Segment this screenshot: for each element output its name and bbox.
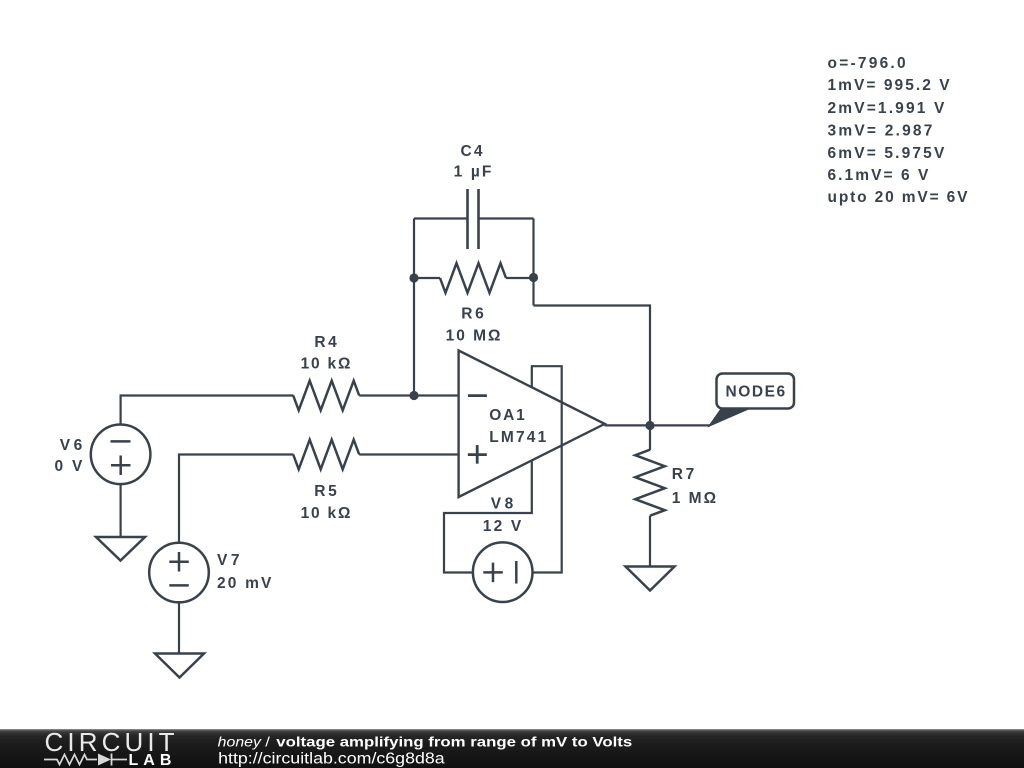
wire: feedback top horizontal right of C4 xyxy=(479,217,534,219)
svg-text:10 MΩ: 10 MΩ xyxy=(446,327,501,344)
wire: left vertical x=414 from cap down to R4 node xyxy=(413,219,415,396)
svg-text:LAB: LAB xyxy=(129,752,177,768)
svg-text:OA1: OA1 xyxy=(489,407,525,424)
V8 plus sign xyxy=(483,563,503,583)
svg-text:NODE6: NODE6 xyxy=(726,384,786,401)
node: R6 right junction xyxy=(529,273,538,282)
node: inverting input junction xyxy=(409,391,418,400)
svg-text:1 MΩ: 1 MΩ xyxy=(672,490,716,507)
NODE6 flag box xyxy=(717,374,795,409)
svg-text:1 µF: 1 µF xyxy=(454,164,492,181)
resistor R6 zigzag xyxy=(440,263,506,293)
wire: output node down to R7 xyxy=(649,426,651,451)
ground (R7) xyxy=(626,567,675,591)
wire: V6 bottom to ground xyxy=(119,484,121,537)
svg-text:http://circuitlab.com/c6g8d8a: http://circuitlab.com/c6g8d8a xyxy=(218,751,445,768)
source V6 circle xyxy=(91,425,151,485)
source V8 circle xyxy=(473,542,533,602)
wire: R5 to op-amp plus input xyxy=(359,453,458,455)
logo diode xyxy=(98,754,111,766)
svg-text:voltage amplifying from range: voltage amplifying from range of mV to V… xyxy=(276,733,632,749)
source V7 circle xyxy=(149,543,209,603)
node: output junction xyxy=(645,421,654,430)
V7 plus sign xyxy=(169,552,189,572)
svg-text:/: / xyxy=(265,733,270,749)
svg-text:10 kΩ: 10 kΩ xyxy=(301,355,351,372)
svg-text:C4: C4 xyxy=(461,143,483,160)
resistor R7 zigzag xyxy=(635,450,665,516)
wire: right vertical x=533 from cap down to R6 right node xyxy=(532,219,534,306)
svg-text:3mV= 2.987: 3mV= 2.987 xyxy=(828,122,933,139)
op-amp minus input symbol xyxy=(468,394,487,397)
svg-text:0 V: 0 V xyxy=(55,458,83,475)
resistor R5 zigzag xyxy=(293,440,359,470)
ground (V7) xyxy=(155,654,204,678)
resistor R6 left lead xyxy=(414,277,440,279)
wire: op-amp output to NODE6 xyxy=(605,424,711,426)
svg-text:6mV= 5.975V: 6mV= 5.975V xyxy=(828,145,945,162)
footer bar xyxy=(0,729,1024,768)
op-amp V- pin and wire to V8 left terminal xyxy=(444,461,532,572)
wire: R7 to ground xyxy=(649,516,651,567)
op-amp OA1 triangle xyxy=(459,351,605,498)
NODE6 flag pointer xyxy=(710,409,750,426)
wire: V7 bottom to ground xyxy=(178,602,180,653)
wire: feedback top horizontal left of C4 xyxy=(414,217,468,219)
V8 minus sign (rotated bar) xyxy=(515,561,518,584)
wire: V6 top to R4 xyxy=(121,396,294,425)
svg-text:R7: R7 xyxy=(672,466,694,483)
resistor R6 right lead xyxy=(506,277,534,279)
svg-text:honey: honey xyxy=(218,733,262,749)
wire: R6/C4 node to op-amp output column xyxy=(534,306,651,426)
ground (V6) xyxy=(96,537,145,561)
V7 minus sign xyxy=(169,584,189,587)
op-amp plus input symbol xyxy=(468,445,487,464)
wire: V7 top to R5 xyxy=(179,455,294,543)
svg-text:10 kΩ: 10 kΩ xyxy=(301,505,351,522)
V6 minus sign xyxy=(111,440,131,443)
capacitor C4 plates xyxy=(468,189,479,249)
logo squiggle resistor xyxy=(44,755,97,765)
annotation text block xyxy=(828,55,969,206)
svg-text:LM741: LM741 xyxy=(489,429,546,446)
wire: R4 to op-amp minus input xyxy=(359,394,458,396)
svg-text:20 mV: 20 mV xyxy=(217,575,272,592)
V6 plus sign xyxy=(111,456,131,476)
svg-text:2mV=1.991 V: 2mV=1.991 V xyxy=(828,100,945,117)
op-amp V+ pin and wire to V8 right terminal xyxy=(532,366,562,572)
node: R6 left junction xyxy=(409,273,418,282)
junction dots xyxy=(409,273,654,430)
resistor R4 zigzag xyxy=(293,381,359,411)
